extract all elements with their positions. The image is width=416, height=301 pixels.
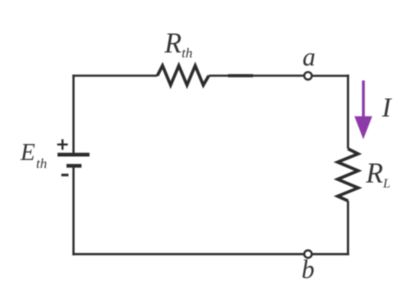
wire left vertical upper	[72, 75, 74, 155]
minus sign	[61, 174, 68, 177]
wire overlap thick segment	[228, 74, 253, 77]
svg-text:Eth: Eth	[20, 140, 48, 172]
svg-text:a: a	[303, 43, 316, 72]
plus sign	[57, 139, 68, 150]
wire resistor to node a	[209, 75, 304, 77]
current arrow I	[354, 81, 372, 140]
svg-text:b: b	[302, 255, 315, 284]
wire node a to corner	[312, 75, 349, 77]
terminal node a	[304, 72, 312, 80]
svg-text:RL: RL	[365, 159, 390, 191]
resistor R_L	[338, 149, 359, 201]
wire right vertical lower	[347, 201, 349, 255]
wire bottom right	[312, 253, 349, 255]
battery long plate (+)	[58, 153, 90, 157]
svg-text:I: I	[381, 93, 393, 123]
terminal node b	[304, 250, 312, 258]
wire top-left horizontal	[72, 75, 157, 77]
wire bottom left	[72, 253, 303, 255]
battery E_th plates	[57, 139, 89, 175]
wire right vertical upper	[347, 75, 349, 149]
wire left vertical lower	[72, 166, 74, 255]
svg-text:Rth: Rth	[164, 29, 193, 62]
battery short plate (-)	[67, 164, 82, 168]
resistor R_th	[157, 66, 209, 86]
